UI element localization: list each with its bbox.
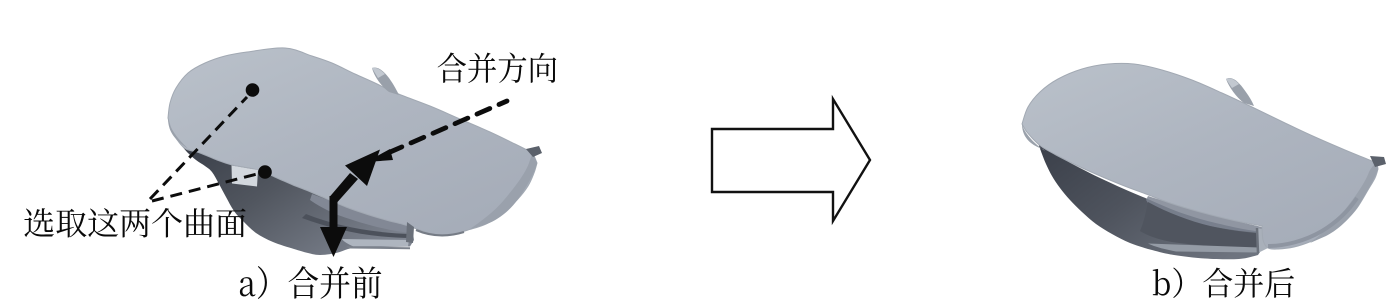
3D model b: right rounded edge band bbox=[1310, 163, 1378, 243]
big hollow arrow between figures bbox=[712, 99, 870, 221]
3D model a: nose lower-edge shading bbox=[168, 118, 191, 151]
3D model a: bottom-right under edge line bbox=[416, 230, 464, 235]
3D model b: bottom hull (merged dark bowl) bbox=[1038, 143, 1262, 259]
3D model a: V-notch dark wedge at lip right end bbox=[406, 222, 414, 243]
small arrowhead on merge-direction dashed line bbox=[366, 149, 393, 162]
3D model a: fin highlight bbox=[372, 68, 385, 78]
3D model b: right tip hook bbox=[1370, 156, 1386, 167]
3D model b: merged medium band (smooth transition) bbox=[1146, 196, 1262, 233]
3D model b: bottom lip bbox=[1148, 244, 1259, 253]
label text "选取这两个曲面" bbox=[24, 208, 245, 237]
thick bent arrow: diagonal shaft bbox=[330, 173, 359, 202]
label text "合并方向" bbox=[438, 52, 557, 83]
3D model b: fin highlight bbox=[1226, 78, 1239, 88]
thick bent arrow: down arrowhead bbox=[320, 227, 347, 257]
3D model a: seam gap medium band bbox=[310, 194, 412, 233]
dashed leader line to dot 1 bbox=[150, 97, 247, 199]
selection point dot 2 bbox=[258, 165, 272, 179]
3D model b: small fin bbox=[1226, 78, 1254, 106]
3D model b: end cap face bbox=[1257, 228, 1268, 253]
3D model b: top surface bbox=[1022, 63, 1378, 249]
3D model a: small fin on top edge bbox=[372, 67, 399, 95]
3D model b: end cap left edge bbox=[1257, 228, 1258, 253]
3D model b: nose lower-edge shading bbox=[1022, 124, 1045, 151]
label text "a）合并前" bbox=[240, 266, 381, 299]
thick bent arrow: up-right arrowhead bbox=[345, 150, 380, 187]
3D model b: bottom-right lobe under-edge band bbox=[1268, 198, 1357, 246]
3D model a: dark line under lip bbox=[346, 247, 410, 250]
3D model a: bottom lip (light band) bbox=[342, 239, 409, 246]
thick bent arrow: vertical shaft bbox=[330, 196, 338, 229]
3D model a: seam gap lower dark line bbox=[302, 214, 412, 238]
3D model a: right tip hook bbox=[526, 146, 542, 157]
3D model b: dark band above lip bbox=[1140, 202, 1257, 248]
dashed leader line to dot 2 bbox=[152, 174, 257, 201]
3D model a: selected-face highlight notch bbox=[232, 166, 259, 187]
label text "b）合并后" bbox=[1153, 267, 1294, 298]
dashed merge-direction line bbox=[389, 101, 507, 153]
3D model a: right rounded edge band bbox=[470, 153, 537, 229]
3D model a: bottom hull (dark bowl surface) bbox=[181, 145, 414, 255]
3D model a: top surface (large light-gray face) bbox=[168, 48, 537, 235]
selection point dot 1 bbox=[246, 83, 260, 97]
